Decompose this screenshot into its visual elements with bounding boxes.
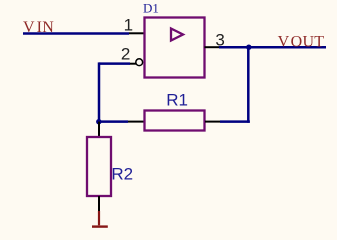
wire: feedback vertical left (98, 62, 101, 121)
pin 2 of R2 (bottom) (98, 196, 100, 211)
ground bar (92, 225, 108, 227)
svg-text:2: 2 (121, 45, 130, 64)
wire: output vertical right (247, 47, 250, 123)
svg-text:V OUT: V OUT (278, 33, 325, 50)
pin 1 of D1 (129, 32, 144, 34)
pin 2 inverting bubble (136, 59, 143, 66)
wire: V OUT net (219, 46, 326, 49)
pin 2 of R1 (right) (205, 121, 220, 123)
pin 1 of R2 (top) (98, 122, 100, 137)
junction node OUT (246, 45, 251, 50)
pin 2 of D1 (inverting, line segment) (130, 63, 137, 65)
wire: node A to R1 (99, 120, 128, 123)
resistor R2 body (87, 137, 111, 196)
junction node A (feedback / R1 / R2) (96, 119, 101, 124)
wire: feedback horizontal to pin 2 (99, 62, 130, 65)
ground stem (98, 211, 100, 225)
buffer triangle of D1 (171, 29, 183, 41)
wire: V IN net (23, 32, 129, 35)
svg-text:D1: D1 (143, 1, 159, 16)
svg-text:R1: R1 (166, 90, 188, 109)
pin 1 of R1 (left) (128, 121, 144, 123)
resistor R1 body (145, 111, 205, 131)
op-amp D1 body (145, 18, 205, 78)
svg-text:R2: R2 (111, 164, 133, 183)
svg-text:1: 1 (124, 15, 133, 34)
wire: R1 to output corner (220, 120, 250, 123)
pin 3 of D1 (205, 46, 220, 48)
